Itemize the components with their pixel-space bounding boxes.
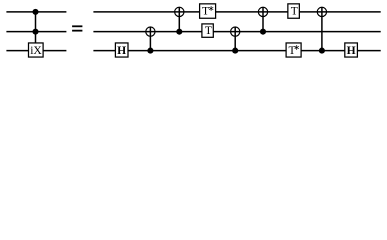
svg-text:iX: iX <box>30 44 42 57</box>
svg-text:∗: ∗ <box>208 4 215 13</box>
svg-text:T: T <box>205 24 212 37</box>
svg-text:H: H <box>117 44 126 57</box>
svg-text:H: H <box>347 44 356 57</box>
svg-text:∗: ∗ <box>293 43 300 52</box>
svg-text:T: T <box>291 5 298 18</box>
